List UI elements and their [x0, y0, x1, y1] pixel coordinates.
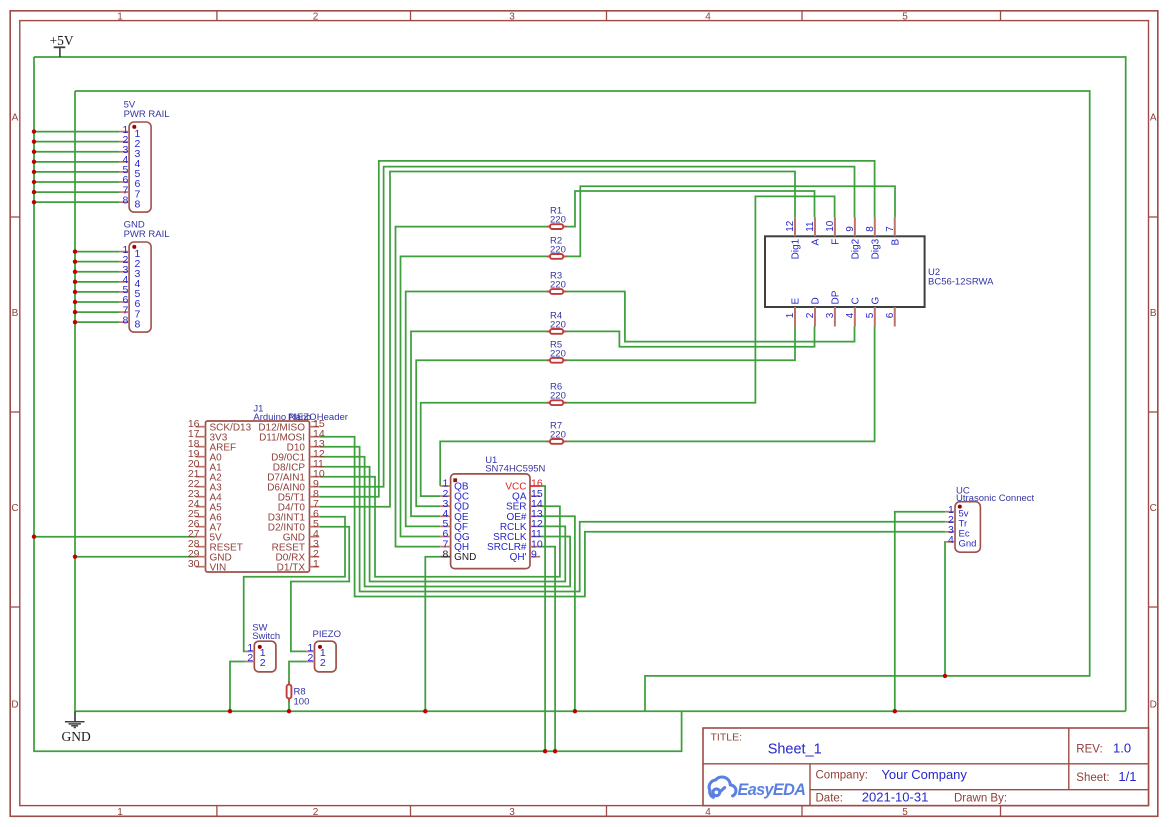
svg-text:A: A: [1150, 113, 1157, 124]
svg-text:12: 12: [785, 220, 796, 232]
svg-text:2: 2: [313, 807, 319, 818]
svg-text:1: 1: [117, 11, 123, 22]
svg-text:GND: GND: [454, 552, 476, 563]
svg-text:10: 10: [825, 220, 836, 232]
svg-text:9: 9: [531, 548, 537, 560]
svg-text:D: D: [810, 297, 821, 304]
svg-text:1: 1: [313, 558, 319, 570]
svg-text:BC56-12SRWA: BC56-12SRWA: [928, 277, 994, 288]
svg-text:9: 9: [845, 226, 856, 232]
svg-text:30: 30: [188, 558, 200, 570]
svg-text:Switch: Switch: [252, 631, 280, 642]
svg-text:4: 4: [705, 11, 711, 22]
svg-text:7: 7: [885, 226, 896, 232]
svg-text:8: 8: [865, 226, 876, 232]
svg-text:PIEZO: PIEZO: [313, 629, 342, 640]
svg-text:4: 4: [705, 807, 711, 818]
svg-text:GND: GND: [62, 729, 91, 744]
svg-text:2: 2: [805, 312, 816, 318]
svg-text:3: 3: [509, 807, 515, 818]
svg-text:TITLE:: TITLE:: [711, 732, 743, 744]
svg-text:E: E: [791, 298, 802, 305]
svg-text:D1/TX: D1/TX: [277, 562, 306, 573]
svg-text:+5V: +5V: [50, 33, 74, 48]
svg-text:SN74HC595N: SN74HC595N: [485, 464, 545, 475]
svg-text:4: 4: [845, 312, 856, 318]
svg-text:Your Company: Your Company: [881, 767, 967, 782]
svg-text:B: B: [890, 238, 901, 245]
svg-text:B: B: [1150, 308, 1157, 319]
svg-text:2: 2: [308, 652, 314, 664]
svg-text:1: 1: [785, 312, 796, 318]
svg-text:3: 3: [509, 11, 515, 22]
svg-text:5: 5: [902, 807, 908, 818]
svg-text:Dig3: Dig3: [870, 238, 881, 259]
svg-text:Dig1: Dig1: [791, 238, 802, 259]
svg-text:D: D: [1150, 700, 1157, 711]
svg-text:PWR RAIL: PWR RAIL: [124, 229, 170, 240]
svg-text:REV:: REV:: [1076, 744, 1102, 756]
svg-text:PWR RAIL: PWR RAIL: [124, 109, 170, 120]
svg-text:F: F: [830, 239, 841, 245]
svg-text:2: 2: [247, 652, 253, 664]
svg-text:1.0: 1.0: [1113, 741, 1131, 756]
svg-text:8: 8: [123, 194, 129, 206]
svg-text:C: C: [1150, 503, 1157, 514]
svg-text:2: 2: [313, 11, 319, 22]
svg-text:8: 8: [135, 198, 141, 210]
svg-text:VIN: VIN: [210, 562, 227, 573]
svg-text:2: 2: [260, 657, 266, 669]
svg-text:8: 8: [135, 318, 141, 330]
svg-text:4: 4: [948, 534, 954, 546]
svg-text:5: 5: [865, 312, 876, 318]
svg-text:8: 8: [123, 314, 129, 326]
svg-text:2021-10-31: 2021-10-31: [862, 790, 929, 805]
svg-text:DP: DP: [830, 290, 841, 304]
svg-text:Dig2: Dig2: [850, 238, 861, 259]
svg-text:2: 2: [320, 657, 326, 669]
svg-text:QH': QH': [510, 552, 527, 563]
svg-text:3: 3: [825, 312, 836, 318]
svg-text:5: 5: [902, 11, 908, 22]
svg-text:Sheet:: Sheet:: [1076, 772, 1109, 784]
svg-text:EasyEDA: EasyEDA: [738, 781, 806, 799]
svg-text:A: A: [12, 113, 19, 124]
svg-text:1/1: 1/1: [1118, 769, 1136, 784]
svg-text:Date:: Date:: [816, 792, 844, 804]
svg-text:Sheet_1: Sheet_1: [768, 742, 822, 758]
svg-text:C: C: [11, 503, 18, 514]
svg-text:100: 100: [294, 697, 310, 708]
svg-text:C: C: [850, 297, 861, 304]
svg-text:8: 8: [442, 548, 448, 560]
svg-text:1: 1: [117, 807, 123, 818]
svg-text:6: 6: [885, 312, 896, 318]
svg-text:Company:: Company:: [816, 770, 868, 782]
svg-text:11: 11: [805, 221, 816, 232]
svg-text:A: A: [810, 238, 821, 245]
svg-text:Gnd: Gnd: [959, 539, 977, 550]
svg-text:D: D: [11, 700, 18, 711]
svg-text:B: B: [12, 308, 19, 319]
svg-text:G: G: [870, 297, 881, 305]
svg-text:Utrasonic Connect: Utrasonic Connect: [956, 493, 1035, 504]
svg-text:Drawn By:: Drawn By:: [954, 793, 1007, 805]
